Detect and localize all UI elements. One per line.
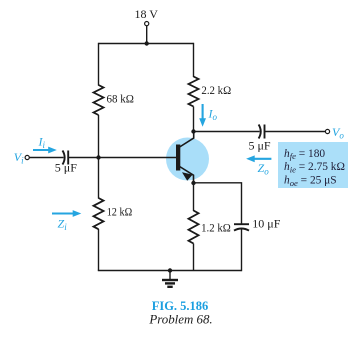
Zo arrow — [246, 155, 271, 176]
svg-text:1.2 kΩ: 1.2 kΩ — [201, 221, 231, 235]
wire: capacitor to base — [68, 157, 176, 159]
wire: emitter to bypass branch — [194, 183, 242, 224]
svg-text:12 kΩ: 12 kΩ — [107, 205, 133, 219]
capacitor 5uF output — [249, 125, 271, 153]
parameter box — [278, 142, 348, 188]
node: base junction — [96, 155, 100, 159]
wire: collector rail — [194, 131, 260, 133]
svg-text:68 kΩ: 68 kΩ — [107, 92, 134, 106]
h-parameter values — [284, 148, 345, 188]
wire: capacitor to bottom rail — [241, 229, 243, 271]
wire: emitter to resistor — [193, 183, 195, 211]
node: emitter — [191, 181, 195, 185]
resistor 12 k — [94, 198, 133, 229]
wire: supply stub — [146, 26, 148, 44]
wire: 2.2k branch upper — [193, 43, 195, 77]
transistor highlight circle — [166, 138, 209, 181]
wire: 2.2k branch lower — [193, 107, 195, 132]
resistor 1.2 k — [189, 211, 231, 244]
wire: left branch lower — [98, 229, 100, 271]
input terminal Vi — [14, 150, 29, 166]
svg-text:FIG. 5.186: FIG. 5.186 — [152, 299, 209, 313]
svg-text:18 V: 18 V — [135, 7, 159, 21]
svg-text:Problem 68.: Problem 68. — [148, 313, 212, 327]
ground — [162, 271, 178, 287]
wire: resistor to bottom rail — [193, 244, 195, 271]
wire: left branch upper — [98, 43, 100, 86]
node: supply junction — [145, 41, 149, 45]
svg-text:5 μF: 5 μF — [249, 138, 271, 152]
Ii arrow — [33, 135, 57, 154]
output terminal Vo — [325, 125, 344, 141]
wire: left branch middle — [98, 115, 100, 199]
capacitor 10uF — [234, 217, 281, 231]
node: collector — [191, 129, 195, 133]
svg-text:10 μF: 10 μF — [252, 217, 280, 231]
wire: top rail — [99, 43, 194, 45]
Io arrow — [199, 104, 217, 127]
Zi arrow — [52, 210, 81, 232]
wire: capacitor to output terminal — [265, 131, 326, 133]
resistor 2.2 k — [189, 77, 232, 107]
resistor 68 k — [94, 85, 134, 115]
wire: input to capacitor — [29, 157, 63, 159]
wire: bottom rail — [98, 270, 242, 272]
node: ground junction — [168, 268, 172, 272]
capacitor 5uF input — [55, 151, 77, 175]
svg-text:5 μF: 5 μF — [55, 161, 77, 175]
supply terminal 18 V — [135, 7, 159, 26]
transistor Q1 — [176, 132, 194, 184]
svg-text:2.2 kΩ: 2.2 kΩ — [201, 83, 231, 97]
